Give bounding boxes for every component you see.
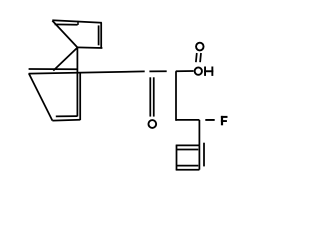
bond ring2 bottom outer line <box>52 119 80 122</box>
bond ring1 top inner double-bond line <box>55 23 78 25</box>
bond ketone C=O line 2 <box>153 77 155 116</box>
bond ring1 bottom <box>77 46 102 49</box>
bond ring1 right inner vertical double-bond line <box>98 25 100 45</box>
bond ring1 top inner end cap <box>77 21 79 25</box>
bond C5 vertical down to ring3 <box>198 120 200 145</box>
bond ring1 left diagonal <box>52 21 77 48</box>
bond ring3 right outer double-bond line <box>203 143 205 167</box>
atom F fluorine <box>221 116 228 125</box>
bond ring2 left diagonal <box>29 73 53 120</box>
bond cage vertical v2 <box>79 72 81 120</box>
bond ring1 top outer <box>52 20 102 23</box>
bond ring3 right vertical <box>198 145 200 169</box>
bond ring2 bottom inner line <box>56 115 78 117</box>
bond spiro diagonal down-left <box>53 48 77 71</box>
bond ring3 top inner double-bond line <box>177 149 198 151</box>
bond ketone C=O line 1 <box>149 77 151 116</box>
bond carboxyl C=O line 1 <box>195 53 198 62</box>
bond C4 horizontal <box>176 119 199 121</box>
bond C3 vertical down <box>175 71 177 121</box>
bond ring3 bottom outer <box>176 169 200 171</box>
atom H of OH <box>204 67 213 76</box>
atom O ketone <box>148 120 156 128</box>
bond ring3 top outer <box>176 144 200 146</box>
bond main chain long horizontal <box>29 71 145 73</box>
atom O carboxyl top <box>196 43 204 51</box>
bond cage vertical v1 <box>76 48 78 117</box>
bond chain segment C1-C2 <box>149 70 166 72</box>
bond carboxyl C=O line 2 <box>199 53 202 62</box>
bond ring3 left vertical <box>176 145 178 169</box>
bond ring3 bottom inner double-bond line <box>177 165 198 167</box>
atom O of OH <box>195 67 202 74</box>
bond ring2 top upper line <box>29 68 78 70</box>
bond chain segment C2-C3 to OH <box>176 70 194 72</box>
bond ring1 right outer vertical <box>100 23 102 49</box>
bond C5-F dash <box>205 119 214 121</box>
